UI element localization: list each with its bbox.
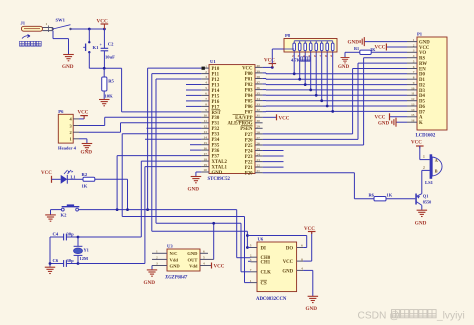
svg-text:35: 35 [256, 92, 260, 96]
svg-text:Y1: Y1 [84, 248, 89, 253]
svg-text:C6: C6 [53, 258, 59, 263]
svg-text:EN: EN [419, 67, 426, 72]
svg-text:PSEN: PSEN [240, 127, 253, 132]
svg-text:22: 22 [256, 164, 260, 168]
svg-text:P33: P33 [212, 133, 220, 138]
svg-text:21: 21 [256, 169, 260, 173]
svg-text:STC89C52: STC89C52 [208, 177, 231, 182]
svg-text:13: 13 [411, 102, 415, 106]
svg-text:3: 3 [413, 49, 415, 53]
svg-text:12: 12 [411, 97, 415, 101]
svg-text:CH1: CH1 [261, 261, 271, 266]
svg-text:3: 3 [205, 75, 207, 79]
svg-text:P03: P03 [245, 89, 253, 94]
svg-text:4: 4 [203, 262, 205, 266]
svg-text:38: 38 [256, 75, 260, 79]
svg-text:6: 6 [413, 65, 415, 69]
svg-text:N/C: N/C [170, 251, 178, 256]
svg-text:5: 5 [205, 86, 207, 90]
svg-text:P27: P27 [245, 133, 253, 138]
svg-text:P02: P02 [245, 83, 253, 88]
svg-text:8550: 8550 [423, 199, 431, 204]
svg-text:D3: D3 [419, 89, 425, 94]
svg-text:K2: K2 [61, 213, 68, 218]
svg-text:P24: P24 [245, 149, 253, 154]
svg-text:B: B [435, 168, 438, 173]
svg-text:16: 16 [204, 146, 208, 150]
svg-text:Vdd: Vdd [189, 263, 198, 268]
svg-text:RW: RW [419, 62, 427, 67]
svg-text:ADC0832CCN: ADC0832CCN [256, 297, 287, 302]
svg-text:D1: D1 [419, 78, 425, 83]
svg-text:D0: D0 [419, 73, 425, 78]
svg-text:36: 36 [256, 86, 260, 90]
svg-text:P14: P14 [212, 89, 220, 94]
svg-text:P20: P20 [245, 172, 253, 177]
svg-text:6: 6 [205, 92, 207, 96]
svg-text:GND: GND [144, 280, 156, 286]
svg-text:P36: P36 [212, 149, 220, 154]
svg-text:2: 2 [205, 70, 207, 74]
svg-text:7: 7 [413, 70, 415, 74]
svg-text:P04: P04 [245, 94, 253, 99]
svg-text:18: 18 [204, 157, 208, 161]
svg-text:XTAL2: XTAL2 [212, 160, 228, 165]
svg-text:VO: VO [419, 51, 426, 56]
svg-text:1K: 1K [82, 184, 88, 189]
svg-text:P16: P16 [212, 100, 220, 105]
svg-text:2: 2 [423, 166, 425, 170]
svg-text:1: 1 [156, 250, 158, 254]
svg-text:LS1: LS1 [425, 180, 434, 185]
svg-text:J1: J1 [21, 21, 26, 26]
svg-text:19: 19 [204, 163, 208, 167]
svg-text:K1: K1 [93, 45, 100, 50]
svg-text:Q1: Q1 [423, 194, 429, 199]
svg-text:11: 11 [204, 119, 208, 123]
svg-text:8: 8 [413, 76, 415, 80]
svg-text:31: 31 [256, 114, 260, 118]
svg-text:27: 27 [256, 136, 260, 140]
svg-text:11: 11 [411, 92, 415, 96]
svg-text:P35: P35 [212, 144, 220, 149]
svg-text:P00: P00 [245, 72, 253, 77]
svg-text:L1: L1 [71, 175, 76, 180]
svg-text:P6: P6 [58, 109, 64, 114]
svg-text:14: 14 [411, 108, 415, 112]
svg-text:R5: R5 [108, 79, 114, 84]
svg-text:P10: P10 [212, 67, 220, 72]
svg-text:2: 2 [156, 256, 158, 260]
svg-text:P01: P01 [245, 77, 253, 82]
svg-text:U1: U1 [210, 59, 216, 64]
svg-text:XGZP6847: XGZP6847 [164, 276, 188, 281]
svg-text:P31: P31 [212, 122, 220, 127]
svg-text:P23: P23 [245, 155, 253, 160]
svg-text:P37: P37 [212, 155, 220, 160]
svg-text:4: 4 [413, 54, 415, 58]
svg-text:GND: GND [338, 65, 350, 70]
svg-text:GND: GND [415, 221, 427, 227]
svg-text:8: 8 [205, 103, 207, 107]
svg-text:1: 1 [205, 64, 207, 68]
svg-text:9: 9 [413, 81, 415, 85]
svg-text:CLK: CLK [261, 271, 272, 276]
svg-text:P25: P25 [245, 144, 253, 149]
svg-text:9: 9 [205, 108, 207, 112]
svg-text:GND: GND [306, 306, 318, 312]
svg-text:20: 20 [204, 168, 208, 172]
svg-text:23: 23 [256, 158, 260, 162]
svg-text:15: 15 [411, 113, 415, 117]
svg-text:4.7K: 4.7K [291, 57, 301, 62]
svg-text:_lvyiyi: _lvyiyi [436, 311, 465, 322]
svg-text:7: 7 [205, 97, 207, 101]
svg-text:A: A [435, 158, 438, 163]
svg-text:SW1: SW1 [56, 18, 66, 23]
svg-text:13: 13 [204, 130, 208, 134]
svg-text:U3: U3 [167, 244, 173, 249]
svg-text:RST: RST [212, 111, 222, 116]
svg-text:28: 28 [256, 130, 260, 134]
svg-text:29: 29 [256, 125, 260, 129]
svg-text:CS: CS [261, 282, 267, 287]
svg-text:C2: C2 [108, 42, 114, 47]
svg-text:17: 17 [204, 152, 208, 156]
svg-text:A: A [419, 116, 423, 121]
svg-text:10K: 10K [105, 94, 114, 99]
svg-text:R6: R6 [369, 192, 375, 197]
svg-text:GND: GND [419, 41, 430, 46]
svg-text:39: 39 [256, 69, 260, 73]
svg-text:GND: GND [378, 122, 390, 127]
svg-text:VCC: VCC [41, 171, 52, 176]
svg-text:GND: GND [62, 64, 74, 70]
svg-text:12: 12 [204, 125, 208, 129]
svg-text:10: 10 [204, 114, 208, 118]
svg-text:OUT: OUT [188, 257, 198, 262]
svg-text:P06: P06 [245, 105, 253, 110]
svg-text:P13: P13 [212, 83, 220, 88]
svg-text:XTAL1: XTAL1 [212, 166, 228, 171]
svg-text:U6: U6 [258, 237, 264, 242]
svg-text:D5: D5 [419, 100, 425, 105]
svg-text:P22: P22 [245, 161, 253, 166]
svg-text:GND: GND [348, 40, 360, 46]
svg-text:3: 3 [156, 262, 158, 266]
svg-text:DO: DO [286, 246, 293, 251]
svg-text:P11: P11 [212, 73, 220, 78]
svg-text:P05: P05 [245, 100, 253, 105]
svg-text:D6: D6 [419, 105, 425, 110]
svg-text:R1: R1 [354, 46, 359, 51]
svg-text:VCC: VCC [283, 260, 294, 265]
svg-text:40: 40 [256, 64, 260, 68]
svg-text:12M: 12M [80, 256, 89, 261]
svg-text:P26: P26 [245, 138, 253, 143]
svg-text:1: 1 [413, 38, 415, 42]
svg-text:VCC: VCC [375, 45, 386, 50]
svg-text:5: 5 [413, 60, 415, 64]
svg-text:14: 14 [204, 135, 208, 139]
svg-text:30p: 30p [67, 258, 75, 263]
svg-text:GND: GND [170, 263, 181, 268]
svg-text:24: 24 [256, 152, 260, 156]
svg-text:P1: P1 [417, 32, 423, 37]
svg-text:D2: D2 [419, 84, 425, 89]
svg-text:1: 1 [46, 22, 48, 26]
svg-text:VCC: VCC [264, 59, 275, 64]
svg-text:VCC: VCC [419, 46, 430, 51]
svg-text:LCD1602: LCD1602 [416, 134, 436, 139]
svg-text:4: 4 [205, 81, 207, 85]
svg-text:2: 2 [70, 130, 72, 135]
svg-text:25: 25 [256, 147, 260, 151]
svg-text:30p: 30p [67, 231, 75, 236]
svg-text:10: 10 [411, 86, 415, 90]
svg-text:10uF: 10uF [105, 55, 115, 60]
svg-text:K: K [419, 121, 423, 126]
svg-text:GND: GND [81, 150, 93, 156]
svg-text:P8: P8 [285, 33, 291, 38]
svg-text:GND: GND [187, 251, 198, 256]
svg-text:GND: GND [282, 269, 293, 274]
svg-text:D7: D7 [419, 110, 425, 115]
svg-text:15: 15 [204, 141, 208, 145]
svg-text:C4: C4 [53, 231, 59, 236]
svg-text:P15: P15 [212, 94, 220, 99]
svg-text:R2: R2 [82, 172, 88, 177]
svg-text:Header 4: Header 4 [58, 146, 77, 151]
svg-text:2: 2 [413, 43, 415, 47]
svg-text:30: 30 [256, 119, 260, 123]
svg-text:VCC: VCC [279, 116, 290, 121]
svg-text:6: 6 [203, 250, 205, 254]
svg-text:P34: P34 [212, 138, 220, 143]
svg-text:37: 37 [256, 80, 260, 84]
svg-text:3K: 3K [370, 47, 376, 52]
svg-text:D4: D4 [419, 94, 425, 99]
svg-text:P07: P07 [245, 111, 253, 116]
svg-text:VCC: VCC [214, 265, 225, 270]
svg-text:Vdd: Vdd [170, 257, 179, 262]
svg-text:33: 33 [256, 103, 260, 107]
svg-text:P21: P21 [245, 166, 253, 171]
svg-text:DI: DI [261, 246, 266, 251]
svg-text:32: 32 [256, 108, 260, 112]
svg-text:VCC: VCC [411, 141, 422, 146]
svg-text:+: + [100, 42, 103, 47]
svg-text:VCC: VCC [78, 111, 89, 116]
svg-text:P32: P32 [212, 127, 220, 132]
svg-text:34: 34 [256, 97, 260, 101]
svg-text:P30: P30 [212, 116, 220, 121]
svg-text:1: 1 [423, 155, 425, 159]
svg-text:1K: 1K [387, 192, 393, 197]
svg-text:5: 5 [203, 256, 205, 260]
svg-text:VCC: VCC [375, 116, 386, 121]
svg-text:VCC: VCC [242, 66, 253, 71]
svg-text:26: 26 [256, 141, 260, 145]
svg-text:16: 16 [411, 119, 415, 123]
svg-text:GND: GND [188, 187, 200, 193]
svg-text:P12: P12 [212, 78, 220, 83]
svg-text:GND: GND [212, 171, 223, 176]
svg-text:1: 1 [70, 137, 72, 142]
svg-text:RS: RS [419, 57, 425, 62]
